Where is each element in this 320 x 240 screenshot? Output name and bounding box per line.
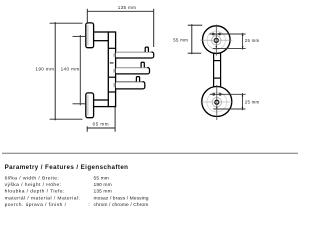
rosette bottom: screw hole	[215, 100, 219, 104]
svg-text:135 mm: 135 mm	[94, 189, 112, 195]
rosette top: horizontal centerline	[200, 39, 232, 41]
svg-text:šířka / width / Breite:: šířka / width / Breite:	[5, 175, 60, 181]
wall pad bottom	[86, 93, 94, 118]
arm 2 (middle)	[113, 68, 149, 74]
rosette top: hub circle	[212, 36, 221, 45]
svg-text:výška / height / Höhe:: výška / height / Höhe:	[5, 182, 62, 188]
svg-text:mosaz / brass / Messing: mosaz / brass / Messing	[94, 195, 149, 201]
rosette bottom: horizontal centerline	[200, 101, 233, 103]
table top rule	[2, 152, 298, 154]
post (vertical pivot column)	[108, 32, 115, 107]
rosette top	[200, 25, 245, 56]
dimension 190 mm (left)	[50, 22, 83, 120]
arm 1 (top, longest)	[113, 52, 153, 58]
svg-text:55 mm: 55 mm	[94, 175, 109, 181]
table rows	[5, 175, 149, 208]
svg-text::: :	[88, 203, 89, 208]
post divider above arm 3	[108, 76, 115, 78]
svg-text:135 mm: 135 mm	[118, 5, 136, 10]
svg-text:55 mm: 55 mm	[173, 37, 188, 42]
rosette top: inner step circle	[207, 31, 225, 49]
wall pad top	[86, 23, 94, 48]
rosette bottom: inner step circle	[207, 92, 227, 112]
post pivot dash (gray)	[110, 62, 114, 64]
dimension 65 mm (bottom)	[87, 107, 115, 132]
rosette bottom	[200, 85, 245, 120]
post divider above arm 1	[108, 47, 115, 49]
arm 3 (bottom, shortest)	[113, 82, 144, 89]
rosette bottom: hub circle	[212, 98, 221, 107]
svg-text:140 mm: 140 mm	[61, 66, 80, 71]
rosette bottom: vertical centerline	[216, 85, 218, 120]
svg-text:190 mm: 190 mm	[35, 66, 54, 71]
dimension 140 mm (holes pitch)	[73, 35, 86, 105]
arm 3 end stopper	[136, 77, 139, 82]
svg-text:25 mm: 25 mm	[245, 38, 260, 43]
dimension 55 mm	[188, 24, 203, 54]
rosette top: screw hole	[214, 38, 218, 42]
dimension 25 mm (top rosette) leader lines	[209, 33, 245, 35]
connector bar	[214, 53, 221, 87]
arm 1 end stopper	[145, 47, 148, 52]
svg-text:povrch. úprava / finish /: povrch. úprava / finish /	[5, 202, 67, 208]
dimension 25 mm (bottom rosette) leader lines	[210, 93, 246, 95]
svg-text:190 mm: 190 mm	[94, 182, 112, 188]
svg-text:Parametry / Features / Eigensc: Parametry / Features / Eigenschaften	[5, 164, 129, 171]
rosette bottom: outer flange circle	[202, 87, 232, 117]
svg-text:materiál / material / Material: materiál / material / Material:	[5, 195, 81, 201]
svg-text:chrom / chrome / Chrom: chrom / chrome / Chrom	[94, 202, 149, 208]
top bracket	[94, 32, 109, 41]
svg-text:65 mm: 65 mm	[93, 122, 110, 127]
svg-text:25 mm: 25 mm	[245, 99, 260, 104]
rosette top: outer flange circle	[203, 26, 231, 54]
post divider below arm 3	[108, 91, 115, 93]
bottom bracket	[94, 100, 109, 107]
rosette top: vertical centerline	[215, 25, 217, 56]
arm 2 end stopper	[141, 62, 144, 67]
svg-text:hloubka / depth / Tiefe:: hloubka / depth / Tiefe:	[5, 189, 65, 195]
dimension 135 mm (top)	[87, 9, 153, 47]
